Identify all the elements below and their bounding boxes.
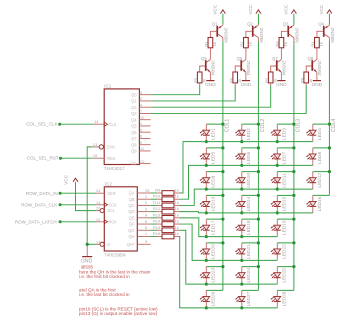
svg-text:1k: 1k	[175, 188, 179, 193]
svg-text:LED14: LED14	[246, 196, 252, 211]
svg-text:i.e. the last bit clocked in: i.e. the last bit clocked in	[79, 292, 130, 297]
junction COL2 row 6	[257, 241, 260, 244]
svg-text:LED13: LED13	[211, 196, 217, 211]
IC2 pin 12 RCK	[96, 221, 104, 223]
LED LED18	[241, 219, 243, 225]
junction COL2 row 3	[257, 170, 260, 173]
svg-text:74HC595N: 74HC595N	[104, 252, 125, 257]
svg-text:Q5: Q5	[131, 124, 137, 129]
svg-text:QH*: QH*	[127, 242, 135, 247]
wire LED3 anode to COL3	[277, 123, 294, 125]
wire row 7 net	[180, 230, 278, 284]
resistor R4 1k	[315, 38, 320, 48]
svg-text:R13: R13	[153, 212, 161, 217]
wire LED1 anode to COL1	[206, 123, 223, 125]
svg-text:R6: R6	[229, 77, 234, 83]
svg-text:2N3904: 2N3904	[282, 60, 287, 76]
junction row 8 LED26 cathode	[205, 306, 208, 309]
junction row 6 LED21 cathode	[240, 259, 243, 262]
ground GND (column 3)	[280, 72, 282, 80]
wire LED14 anode to COL2	[242, 194, 259, 196]
svg-text:4: 4	[145, 213, 148, 218]
svg-text:10: 10	[96, 206, 101, 211]
svg-text:Q4: Q4	[131, 117, 137, 122]
transistor Q1 2N3906	[222, 24, 224, 27]
svg-text:GND: GND	[241, 82, 252, 88]
LED LED1	[205, 124, 207, 130]
svg-text:2N3906: 2N3906	[259, 28, 264, 44]
svg-text:LED15: LED15	[282, 196, 288, 211]
ground GND (IC2)	[86, 247, 88, 257]
wire VCC to Q4 emitter	[328, 14, 330, 25]
wire LED8 anode to COL4	[313, 147, 330, 149]
wire LED18 anode to COL2	[242, 218, 259, 220]
svg-text:1k: 1k	[175, 200, 179, 205]
LED LED13	[205, 195, 207, 201]
svg-text:1k: 1k	[175, 206, 179, 211]
IC IC2 74HC595N body	[104, 187, 137, 251]
LED LED5	[205, 148, 207, 154]
svg-text:LED10: LED10	[246, 173, 252, 188]
resistor R13 1k	[151, 217, 157, 219]
IC1 pin 1 Q5	[139, 125, 150, 127]
LED LED11	[276, 172, 278, 178]
junction row 1 LED1 cathode	[205, 140, 208, 143]
svg-text:VCC: VCC	[283, 4, 288, 15]
svg-text:6: 6	[140, 134, 143, 139]
LED LED17	[205, 219, 207, 225]
svg-text:1k: 1k	[175, 212, 179, 217]
svg-text:LED28: LED28	[282, 291, 288, 306]
svg-text:11: 11	[96, 200, 101, 205]
wire COL2	[257, 42, 259, 291]
junction COL1 row 1	[221, 123, 224, 126]
IC IC1 74HC4017 body	[104, 89, 139, 165]
ground GND (column 2)	[245, 72, 247, 80]
svg-text:10: 10	[140, 115, 145, 120]
svg-text:COL_SEL_CLK: COL_SEL_CLK	[26, 121, 58, 126]
svg-text:QA: QA	[129, 191, 135, 196]
LED LED19	[276, 219, 278, 225]
svg-text:2N3906: 2N3906	[224, 28, 229, 44]
svg-text:GND: GND	[81, 258, 93, 264]
IC1 pin 13 ENA	[93, 146, 99, 148]
IC1 pin 14 CLK	[93, 123, 104, 125]
LED LED2	[241, 124, 243, 130]
wire LED11 anode to COL3	[277, 171, 294, 173]
svg-text:1k: 1k	[175, 219, 179, 224]
svg-text:VCC: VCC	[319, 4, 324, 15]
svg-text:3: 3	[140, 90, 143, 95]
svg-text:LED25: LED25	[282, 268, 288, 283]
junction COL3 row 3	[292, 170, 295, 173]
svg-text:1k: 1k	[175, 225, 179, 230]
svg-text:VCC: VCC	[63, 174, 68, 185]
svg-text:QB: QB	[129, 197, 135, 202]
svg-text:SCL: SCL	[107, 208, 116, 213]
IC1 pin 11 Q9	[139, 150, 150, 152]
wire row 4 net	[180, 212, 313, 213]
svg-text:COL4: COL4	[331, 119, 337, 133]
wire LED15 anode to COL3	[277, 194, 294, 196]
svg-text:1k: 1k	[175, 194, 179, 199]
svg-text:LED7: LED7	[282, 152, 288, 164]
svg-text:SCK: SCK	[108, 202, 117, 207]
svg-text:ROW_DATA_IN: ROW_DATA_IN	[26, 191, 58, 196]
wire COL3	[293, 42, 295, 291]
LED LED3	[276, 124, 278, 130]
LED LED24	[241, 267, 243, 273]
svg-text:1k: 1k	[318, 42, 323, 46]
wire IC1 ENA to GND rail	[87, 147, 93, 247]
IC2 pin 1 QB	[137, 198, 150, 200]
LED LED10	[241, 172, 243, 178]
resistor R2 1k	[244, 38, 249, 48]
wire row 8 net	[180, 236, 278, 307]
transistor Q7 2N3904	[278, 59, 282, 62]
LED LED15	[276, 195, 278, 201]
svg-text:2: 2	[140, 96, 143, 101]
junction row 5 LED18 cathode	[240, 235, 243, 238]
svg-text:1k: 1k	[247, 42, 252, 46]
wire VCC to Q1 emitter	[222, 14, 224, 25]
LED LED28	[276, 290, 278, 296]
svg-text:2N3904: 2N3904	[211, 60, 216, 76]
svg-text:CO: CO	[130, 161, 136, 166]
wire LED2 anode to COL2	[242, 123, 259, 125]
resistor R1 1k	[208, 38, 213, 48]
svg-text:QH: QH	[128, 234, 134, 239]
svg-text:R12: R12	[153, 206, 161, 211]
LED LED8	[312, 148, 314, 154]
svg-text:5: 5	[140, 127, 143, 132]
svg-text:LED3: LED3	[282, 128, 288, 140]
svg-text:R5: R5	[193, 77, 198, 83]
wire LED20 anode to COL1	[206, 242, 223, 244]
wire COL1	[222, 42, 224, 291]
LED LED9	[205, 172, 207, 178]
svg-text:R15: R15	[153, 225, 161, 230]
svg-text:LED24: LED24	[246, 268, 252, 283]
LED LED16	[312, 195, 314, 201]
svg-text:9: 9	[140, 140, 143, 145]
wire COL_SEL_RST to IC1 RES	[61, 157, 93, 159]
IC1 pin 12 CO	[139, 163, 150, 165]
svg-text:ROW_DATA_LATCH: ROW_DATA_LATCH	[15, 220, 57, 225]
junction GND rail / G	[86, 243, 89, 246]
svg-text:LED1: LED1	[211, 128, 217, 140]
junction row 2 LED5 cathode	[205, 164, 208, 167]
svg-text:LED21: LED21	[246, 244, 252, 259]
junction COL4 row 3	[328, 170, 331, 173]
IC2 pin 2 QC	[137, 204, 150, 206]
svg-text:11: 11	[140, 146, 145, 151]
wire row 2 net	[180, 165, 313, 199]
junction row 6 LED20 cathode	[205, 259, 208, 262]
junction row 8 LED27 cathode	[240, 306, 243, 309]
svg-text:G: G	[107, 242, 110, 247]
junction row 1 LED2 cathode	[240, 140, 243, 143]
svg-text:GND: GND	[205, 82, 216, 88]
resistor R16 1k	[151, 235, 157, 237]
svg-text:ROW_DATA_CLK: ROW_DATA_CLK	[21, 203, 57, 208]
resistor R5 1k	[197, 72, 202, 83]
svg-text:COL2: COL2	[260, 119, 266, 133]
svg-text:pin13 (G) is output enable (a: pin13 (G) is output enable (active low)	[79, 311, 158, 316]
svg-text:13: 13	[96, 239, 101, 244]
IC1 pin 7 Q3	[139, 112, 150, 114]
IC1 pin 15 RES	[93, 157, 104, 159]
svg-text:Q7: Q7	[131, 136, 137, 141]
svg-text:LED22: LED22	[282, 244, 288, 259]
svg-text:14: 14	[94, 119, 99, 124]
junction COL1 row 7	[221, 265, 224, 268]
svg-text:LED16: LED16	[317, 196, 323, 211]
svg-text:Q9: Q9	[131, 149, 137, 154]
resistor R7 1k	[268, 72, 273, 83]
svg-text:Q8: Q8	[131, 142, 137, 147]
svg-text:R16: R16	[153, 231, 161, 236]
svg-text:Q5: Q5	[201, 56, 207, 61]
svg-text:LED6: LED6	[246, 152, 252, 164]
junction COL2 row 5	[257, 218, 260, 221]
node COL_SEL_RST	[59, 157, 62, 160]
IC1 pin 9 Q8	[139, 144, 150, 146]
wire ROW_DATA_CLK to IC2 SCK	[60, 204, 96, 206]
svg-text:R9: R9	[155, 188, 161, 193]
svg-text:LED27: LED27	[246, 291, 252, 306]
junction COL4 row 1	[328, 123, 331, 126]
svg-text:6: 6	[145, 225, 148, 230]
svg-text:IC1: IC1	[104, 83, 112, 88]
wire LED21 anode to COL2	[242, 242, 259, 244]
svg-text:SER: SER	[107, 191, 115, 196]
svg-text:Q3: Q3	[283, 21, 289, 26]
svg-text:12: 12	[96, 217, 101, 222]
svg-text:IC2: IC2	[105, 182, 113, 187]
junction row 2 LED6 cathode	[240, 164, 243, 167]
wire LED28 anode to COL3	[277, 289, 294, 291]
supply VCC (column 4)	[327, 10, 332, 14]
svg-text:LED17: LED17	[211, 220, 217, 235]
IC1 pin 5 Q6	[139, 131, 150, 133]
IC2 pin 5 QF	[137, 223, 150, 225]
svg-text:9: 9	[145, 239, 148, 244]
transistor Q3 2N3906	[293, 24, 295, 27]
node ROW_DATA_LATCH	[59, 220, 62, 223]
svg-text:COL3: COL3	[295, 119, 301, 133]
LED LED25	[276, 267, 278, 273]
svg-text:R10: R10	[153, 194, 161, 199]
LED LED20	[205, 243, 207, 249]
wire LED4 anode to COL4	[313, 123, 330, 125]
wire LED25 anode to COL3	[277, 266, 294, 268]
svg-text:QD: QD	[128, 209, 134, 214]
svg-text:R8: R8	[300, 77, 305, 83]
svg-text:LED19: LED19	[282, 220, 288, 235]
resistor R11 1k	[151, 204, 157, 206]
junction COL4 row 2	[328, 146, 331, 149]
wire ROW_DATA_LATCH to IC2 RCK	[60, 221, 96, 223]
wire COL_SEL_CLK to IC1 CLK	[60, 123, 93, 125]
wire LED5 anode to COL1	[206, 147, 223, 149]
junction row 1 LED3 cathode	[276, 140, 279, 143]
svg-text:QE: QE	[129, 215, 135, 220]
wire LED22 anode to COL3	[277, 242, 294, 244]
svg-text:Q2: Q2	[247, 21, 253, 26]
svg-text:4: 4	[140, 102, 143, 107]
wire LED17 anode to COL1	[206, 218, 223, 220]
IC2 pin 4 QE	[137, 217, 150, 219]
svg-text:LED11: LED11	[282, 173, 288, 188]
svg-text:7: 7	[140, 109, 143, 114]
IC2 pin 11 SCK	[96, 204, 104, 206]
svg-text:2N3904: 2N3904	[246, 60, 251, 76]
svg-text:R7: R7	[264, 77, 269, 83]
svg-text:1k: 1k	[283, 42, 288, 46]
wire LED19 anode to COL3	[277, 218, 294, 220]
wire IC1 Q0 to R5	[151, 86, 200, 95]
svg-text:Q4: Q4	[318, 21, 324, 26]
svg-text:2N3904: 2N3904	[317, 60, 322, 76]
svg-text:7: 7	[145, 231, 148, 236]
svg-text:5: 5	[145, 219, 148, 224]
IC1 pin 4 Q2	[139, 106, 150, 108]
junction COL1 row 6	[221, 241, 224, 244]
IC2 pin 9 QH*	[137, 243, 150, 245]
wire LED7 anode to COL3	[277, 147, 294, 149]
svg-text:QC: QC	[128, 203, 134, 208]
svg-text:Q2: Q2	[131, 105, 137, 110]
svg-text:i.e. the first bit clocked in: i.e. the first bit clocked in	[79, 274, 130, 279]
LED LED27	[241, 290, 243, 296]
wire LED23 anode to COL1	[206, 266, 223, 268]
LED LED21	[241, 243, 243, 249]
LED LED7	[276, 148, 278, 154]
junction COL2 row 7	[257, 265, 260, 268]
wire VCC to Q2 emitter	[257, 14, 259, 25]
IC2 pin 10 SCL	[96, 210, 100, 212]
wire row 3 net	[180, 189, 313, 205]
LED LED6	[241, 148, 243, 154]
wire IC1 Q1 to R6	[151, 86, 236, 101]
resistor R10 1k	[151, 198, 157, 200]
supply VCC (column 1)	[220, 10, 225, 14]
junction COL3 row 2	[292, 146, 295, 149]
svg-text:LED20: LED20	[211, 244, 217, 259]
svg-text:1k: 1k	[175, 231, 179, 236]
svg-text:Q6: Q6	[237, 56, 243, 61]
svg-text:2: 2	[145, 200, 148, 205]
junction row 2 LED7 cathode	[276, 164, 279, 167]
resistor R8 1k	[304, 72, 309, 83]
junction COL3 row 6	[292, 241, 295, 244]
svg-text:VCC: VCC	[212, 4, 217, 15]
svg-text:LED8: LED8	[317, 152, 323, 164]
svg-text:13: 13	[93, 142, 98, 147]
svg-text:R11: R11	[153, 200, 161, 205]
junction COL3 row 7	[292, 265, 295, 268]
svg-text:LED12: LED12	[317, 173, 323, 188]
wire row 5 net	[180, 218, 278, 237]
LED LED14	[241, 195, 243, 201]
supply VCC (column 2)	[256, 10, 261, 14]
svg-text:CLK: CLK	[109, 122, 117, 127]
svg-text:R2: R2	[239, 41, 244, 47]
svg-text:12: 12	[140, 159, 145, 164]
wire LED13 anode to COL1	[206, 194, 223, 196]
wire IC1 Q2 to R7	[151, 86, 271, 108]
svg-text:1: 1	[145, 194, 148, 199]
junction COL2 row 2	[257, 146, 260, 149]
svg-text:VCC: VCC	[248, 4, 253, 15]
svg-text:2N3906: 2N3906	[330, 28, 335, 44]
IC2 pin 14 SER	[96, 192, 104, 194]
svg-text:R3: R3	[275, 41, 280, 47]
wire COL4	[328, 42, 330, 196]
wire IC2 G to GND rail	[87, 243, 96, 245]
wire LED16 anode to COL4	[313, 194, 330, 196]
resistor R6 1k	[233, 72, 238, 83]
svg-text:3: 3	[145, 206, 148, 211]
junction COL1 row 4	[221, 194, 224, 197]
node ROW_DATA_CLK	[59, 203, 62, 206]
resistor R12 1k	[151, 211, 157, 213]
LED LED12	[312, 172, 314, 178]
wire LED24 anode to COL2	[242, 266, 259, 268]
IC1 pin 10 Q4	[139, 119, 150, 121]
ground GND (column 4)	[316, 72, 318, 80]
transistor Q8 2N3904	[313, 59, 317, 62]
node ROW_DATA_IN	[59, 192, 62, 195]
svg-text:RES: RES	[107, 156, 116, 161]
svg-text:15: 15	[93, 153, 98, 158]
ground GND (column 1)	[209, 72, 211, 80]
svg-text:14: 14	[96, 188, 101, 193]
IC2 pin 3 QD	[137, 211, 150, 213]
junction COL2 row 1	[257, 123, 260, 126]
transistor Q5 2N3904	[207, 59, 211, 62]
junction COL3 row 4	[292, 194, 295, 197]
wire IC1 Q3 to R8	[151, 86, 307, 114]
svg-text:COL_SEL_RST: COL_SEL_RST	[27, 156, 59, 161]
svg-text:Q6: Q6	[131, 130, 137, 135]
junction row 4 LED13 cathode	[205, 211, 208, 214]
supply VCC (column 3)	[291, 10, 296, 14]
resistor R3 1k	[279, 38, 284, 48]
LED LED26	[205, 290, 207, 296]
junction row 4 LED14 cathode	[240, 211, 243, 214]
IC2 pin 6 QG	[137, 229, 150, 231]
transistor Q2 2N3906	[257, 24, 259, 27]
LED LED22	[276, 243, 278, 249]
IC1 pin 3 Q0	[139, 94, 150, 96]
junction row 3 LED9 cathode	[205, 188, 208, 191]
svg-text:LED5: LED5	[211, 152, 217, 164]
wire LED26 anode to COL1	[206, 289, 223, 291]
wire LED27 anode to COL2	[242, 289, 259, 291]
svg-text:Q1: Q1	[131, 99, 137, 104]
svg-text:1k: 1k	[212, 42, 217, 46]
svg-text:R4: R4	[310, 41, 315, 47]
svg-text:2N3906: 2N3906	[295, 28, 300, 44]
svg-text:Q0: Q0	[131, 92, 137, 97]
transistor Q4 2N3906	[328, 24, 330, 27]
IC1 pin 2 Q1	[139, 100, 150, 102]
junction COL3 row 5	[292, 218, 295, 221]
svg-text:ENA: ENA	[107, 145, 116, 150]
wire LED6 anode to COL2	[242, 147, 259, 149]
